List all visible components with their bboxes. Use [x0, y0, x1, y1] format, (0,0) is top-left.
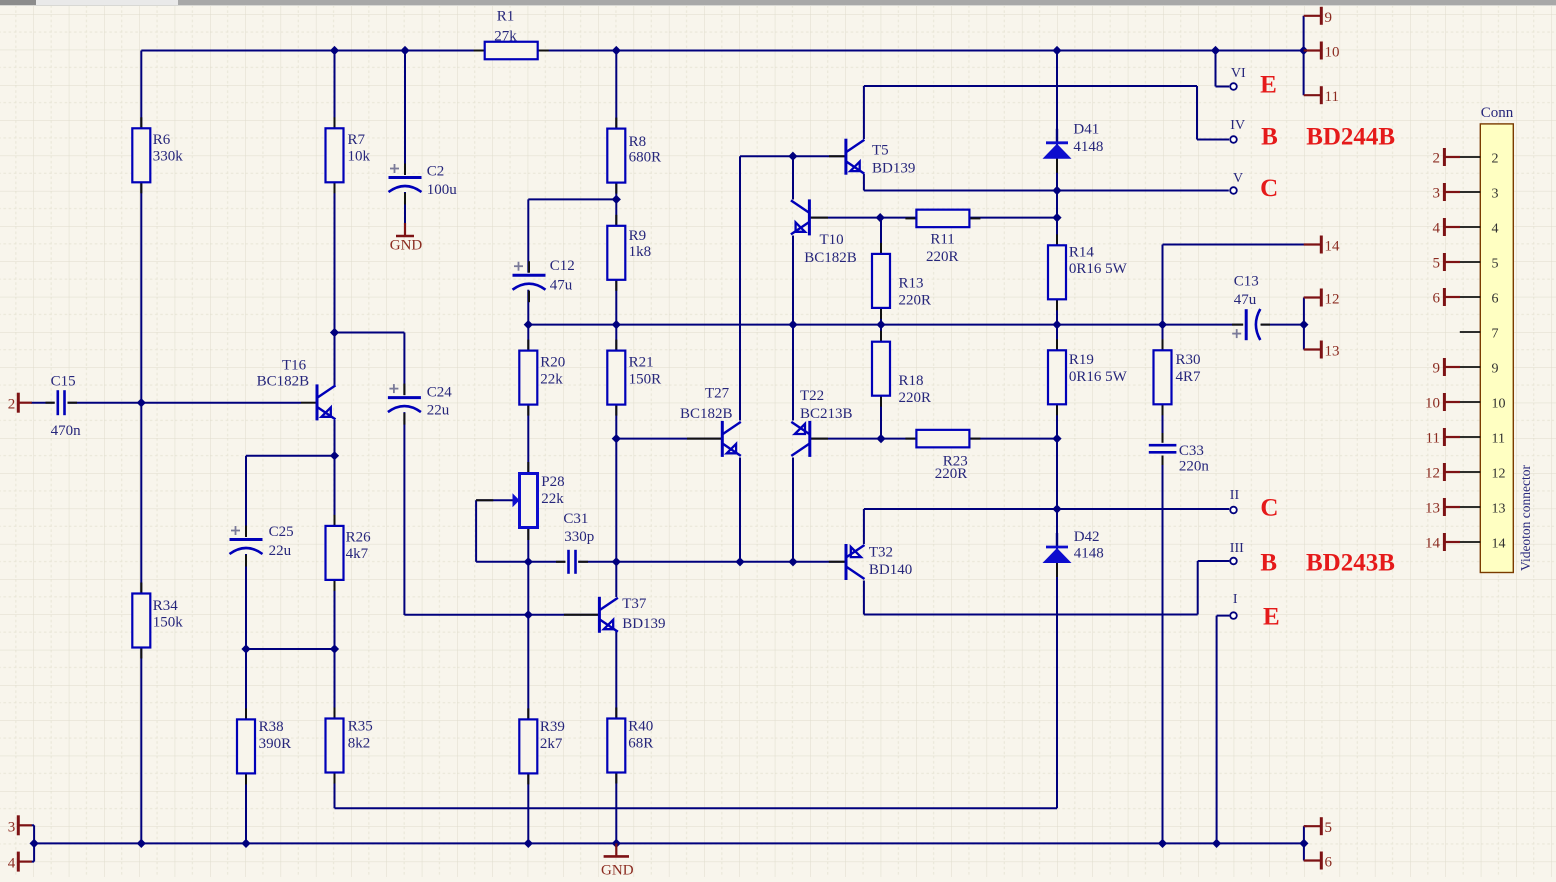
svg-text:C: C — [1260, 175, 1278, 202]
svg-text:C12: C12 — [550, 258, 575, 274]
svg-text:5: 5 — [1433, 256, 1441, 272]
svg-text:6: 6 — [1433, 291, 1441, 307]
svg-text:14: 14 — [1425, 536, 1441, 552]
svg-text:0R16 5W: 0R16 5W — [1069, 369, 1128, 385]
svg-text:C24: C24 — [427, 385, 453, 401]
svg-text:4: 4 — [1433, 221, 1441, 237]
svg-text:10: 10 — [1325, 45, 1340, 61]
svg-text:220R: 220R — [899, 292, 932, 308]
svg-text:T32: T32 — [869, 544, 893, 560]
svg-text:IV: IV — [1230, 118, 1245, 133]
svg-text:II: II — [1230, 488, 1240, 503]
svg-text:T27: T27 — [705, 386, 730, 402]
svg-text:100u: 100u — [427, 182, 458, 198]
svg-text:11: 11 — [1492, 432, 1505, 447]
svg-text:10: 10 — [1492, 397, 1506, 412]
svg-text:4: 4 — [8, 856, 16, 872]
svg-text:C31: C31 — [563, 511, 588, 527]
svg-text:BC182B: BC182B — [257, 374, 310, 390]
svg-text:D41: D41 — [1073, 122, 1099, 138]
svg-text:220n: 220n — [1179, 459, 1210, 475]
svg-text:22k: 22k — [541, 491, 564, 507]
svg-text:2: 2 — [8, 397, 16, 413]
svg-text:R14: R14 — [1069, 245, 1095, 261]
svg-text:E: E — [1260, 71, 1277, 98]
svg-text:R18: R18 — [899, 373, 924, 389]
svg-text:D42: D42 — [1074, 529, 1100, 545]
svg-text:10: 10 — [1425, 396, 1440, 412]
svg-text:3: 3 — [1492, 187, 1499, 202]
svg-text:R13: R13 — [899, 275, 924, 291]
svg-text:R21: R21 — [629, 355, 654, 371]
svg-text:R8: R8 — [629, 134, 647, 150]
svg-text:14: 14 — [1492, 537, 1506, 552]
svg-text:2k7: 2k7 — [540, 736, 563, 752]
svg-text:2: 2 — [1492, 152, 1499, 167]
svg-text:BD139: BD139 — [872, 161, 915, 177]
svg-text:R20: R20 — [540, 355, 565, 371]
svg-text:R9: R9 — [629, 228, 647, 244]
svg-text:V: V — [1233, 171, 1243, 186]
svg-text:R40: R40 — [628, 719, 653, 735]
svg-text:E: E — [1263, 603, 1280, 630]
svg-text:III: III — [1230, 541, 1244, 556]
svg-text:330p: 330p — [564, 529, 594, 545]
svg-text:13: 13 — [1492, 502, 1506, 517]
svg-text:11: 11 — [1426, 431, 1440, 447]
svg-text:330k: 330k — [153, 149, 184, 165]
svg-text:4R7: 4R7 — [1176, 369, 1202, 385]
svg-text:I: I — [1233, 592, 1238, 607]
svg-text:9: 9 — [1433, 361, 1441, 377]
svg-text:2: 2 — [1433, 151, 1441, 167]
svg-text:P28: P28 — [541, 474, 564, 490]
svg-text:390R: 390R — [259, 736, 292, 752]
svg-text:C: C — [1260, 494, 1278, 521]
svg-text:BD243B: BD243B — [1306, 550, 1395, 577]
svg-text:4k7: 4k7 — [346, 546, 369, 562]
svg-text:470n: 470n — [51, 423, 82, 439]
svg-text:R6: R6 — [153, 132, 171, 148]
svg-text:B: B — [1261, 124, 1278, 151]
svg-text:R1: R1 — [497, 9, 515, 25]
svg-text:T10: T10 — [820, 232, 844, 248]
svg-text:R26: R26 — [346, 529, 372, 545]
svg-text:14: 14 — [1325, 239, 1341, 255]
svg-text:R7: R7 — [348, 132, 366, 148]
svg-text:22k: 22k — [540, 372, 563, 388]
svg-text:27k: 27k — [494, 28, 517, 44]
svg-text:BD140: BD140 — [869, 562, 912, 578]
svg-text:R19: R19 — [1069, 352, 1094, 368]
svg-text:B: B — [1260, 550, 1277, 577]
svg-text:R34: R34 — [153, 598, 179, 614]
svg-text:0R16 5W: 0R16 5W — [1069, 261, 1128, 277]
svg-text:T16: T16 — [282, 358, 307, 374]
svg-text:1k8: 1k8 — [629, 244, 652, 260]
svg-text:68R: 68R — [628, 736, 653, 752]
svg-text:150k: 150k — [153, 615, 184, 631]
svg-text:T22: T22 — [800, 388, 824, 404]
svg-text:12: 12 — [1492, 467, 1506, 482]
svg-text:BC213B: BC213B — [800, 406, 853, 422]
svg-text:5: 5 — [1325, 820, 1333, 836]
svg-text:47u: 47u — [1234, 292, 1257, 308]
svg-text:GND: GND — [601, 863, 634, 877]
svg-text:150R: 150R — [629, 372, 662, 388]
svg-text:12: 12 — [1425, 466, 1440, 482]
svg-text:4148: 4148 — [1073, 139, 1103, 155]
svg-text:8k2: 8k2 — [348, 736, 371, 752]
svg-text:BC182B: BC182B — [680, 406, 733, 422]
svg-text:7: 7 — [1492, 327, 1499, 342]
svg-text:220R: 220R — [899, 390, 932, 406]
svg-text:BD244B: BD244B — [1306, 124, 1395, 151]
svg-text:R39: R39 — [540, 719, 565, 735]
svg-text:BC182B: BC182B — [804, 250, 857, 266]
svg-text:C2: C2 — [427, 163, 445, 179]
svg-text:R30: R30 — [1176, 352, 1201, 368]
svg-text:10k: 10k — [348, 149, 371, 165]
svg-text:9: 9 — [1492, 362, 1499, 377]
svg-text:T37: T37 — [622, 596, 647, 612]
svg-text:4148: 4148 — [1074, 546, 1104, 562]
svg-text:R38: R38 — [259, 719, 284, 735]
svg-text:R35: R35 — [348, 719, 373, 735]
svg-text:22u: 22u — [427, 403, 450, 419]
svg-text:C33: C33 — [1179, 443, 1204, 459]
svg-text:4: 4 — [1492, 222, 1499, 237]
svg-text:VI: VI — [1231, 66, 1246, 81]
svg-text:T5: T5 — [872, 143, 889, 159]
svg-text:3: 3 — [1433, 186, 1441, 202]
svg-text:220R: 220R — [935, 466, 968, 482]
svg-text:3: 3 — [8, 819, 16, 835]
svg-text:6: 6 — [1325, 855, 1333, 871]
svg-text:11: 11 — [1325, 89, 1339, 105]
svg-text:R11: R11 — [930, 232, 954, 248]
svg-text:6: 6 — [1492, 292, 1499, 307]
svg-text:5: 5 — [1492, 257, 1499, 272]
svg-text:C13: C13 — [1234, 274, 1259, 290]
svg-text:680R: 680R — [629, 150, 662, 166]
svg-text:Videoton connector: Videoton connector — [1518, 464, 1533, 571]
svg-text:220R: 220R — [926, 249, 959, 265]
svg-text:C15: C15 — [51, 374, 76, 390]
svg-text:12: 12 — [1325, 292, 1340, 308]
svg-text:13: 13 — [1425, 501, 1440, 517]
svg-text:47u: 47u — [550, 278, 573, 294]
svg-text:BD139: BD139 — [622, 616, 665, 632]
svg-text:GND: GND — [390, 237, 423, 253]
svg-text:22u: 22u — [269, 543, 292, 559]
svg-text:Conn: Conn — [1481, 105, 1514, 121]
svg-text:13: 13 — [1325, 344, 1340, 360]
svg-text:9: 9 — [1325, 10, 1333, 26]
svg-text:C25: C25 — [269, 524, 294, 540]
